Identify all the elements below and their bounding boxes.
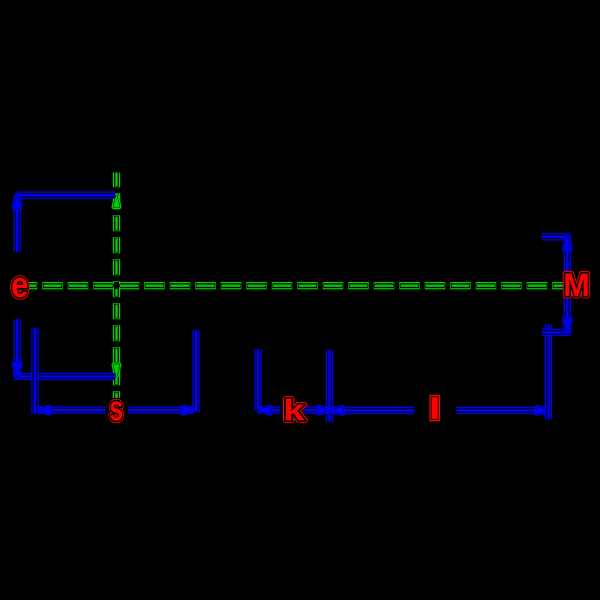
green arrow down (on vertical centerline, tip at bottom reference line) bbox=[114, 365, 119, 376]
label k bbox=[283, 393, 305, 428]
top reference line A bbox=[17, 191, 116, 198]
green arrow up (on vertical centerline, tip at top reference line) bbox=[114, 196, 119, 207]
centerline horizontal (green chain line) bbox=[28, 282, 563, 289]
centerline vertical (green dashed) bbox=[113, 173, 120, 399]
dimension line e (vertical, lower segment) bbox=[14, 319, 21, 376]
arrow down of dimension M bbox=[564, 319, 570, 332]
dimension line k (right part) bbox=[304, 407, 329, 414]
crossing hole of centerlines bbox=[113, 282, 120, 289]
arrow right of dimension l bbox=[537, 407, 548, 413]
dimension line e (vertical, upper segment) bbox=[14, 195, 21, 252]
arrow left of dimension s bbox=[39, 407, 50, 413]
bottom reference line B bbox=[14, 373, 116, 380]
label l bbox=[432, 398, 437, 419]
extension line s right bbox=[192, 330, 199, 412]
dimension line s (right part) bbox=[128, 407, 194, 414]
svg-text:s: s bbox=[109, 388, 123, 429]
dimension line l (right part) bbox=[457, 407, 549, 414]
reference line M top bbox=[542, 233, 571, 240]
svg-text:k: k bbox=[283, 393, 305, 428]
dimension line M (vertical) bbox=[564, 237, 571, 332]
arrow left of dimension l bbox=[332, 407, 343, 413]
extension line s left bbox=[31, 328, 38, 415]
reference line M bottom bbox=[542, 329, 571, 336]
dimension line l (left part) bbox=[332, 407, 415, 414]
extension line k left bbox=[254, 349, 261, 411]
arrow left of dimension k bbox=[259, 407, 270, 413]
svg-text:e: e bbox=[11, 265, 28, 306]
arrow down of dimension e bbox=[14, 363, 20, 376]
label s bbox=[109, 388, 123, 429]
extension line k right / l left bbox=[326, 350, 333, 422]
extension line l right bbox=[545, 325, 552, 420]
arrow right of dimension s bbox=[183, 407, 194, 413]
arrow up of dimension M bbox=[564, 237, 570, 250]
arrow right of dimension k bbox=[318, 407, 329, 413]
arrow up of dimension e bbox=[14, 195, 20, 208]
label M bbox=[563, 267, 590, 303]
label e bbox=[11, 265, 28, 306]
dimension line s (left part) bbox=[39, 407, 106, 414]
svg-text:M: M bbox=[563, 267, 590, 303]
dimension line k (left part) bbox=[259, 407, 281, 414]
